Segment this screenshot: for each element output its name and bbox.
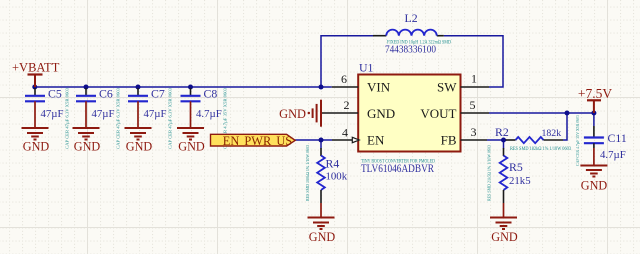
svg-text:R4: R4: [326, 157, 340, 171]
svg-text:C7: C7: [151, 87, 165, 101]
capacitor C11: [575, 114, 627, 166]
junction C6 on VIN net: [84, 85, 89, 90]
svg-text:RES SMD 21k5Ω 1% 1/10W 0603: RES SMD 21k5Ω 1% 1/10W 0603: [487, 144, 492, 201]
svg-text:CAP CER 47µF 6.3V X5R 0603: CAP CER 47µF 6.3V X5R 0603: [116, 87, 121, 149]
svg-text:4.7µF: 4.7µF: [600, 149, 626, 161]
junction FB net / R5: [501, 138, 506, 143]
svg-text:R2: R2: [495, 125, 509, 139]
svg-text:GND: GND: [178, 140, 205, 154]
U1 pin 1 SW: [461, 86, 490, 88]
resistor R4: [305, 144, 348, 203]
U1 pin 4 EN: [332, 139, 358, 141]
wire C11 drop: [593, 113, 595, 126]
svg-text:GND: GND: [367, 106, 395, 121]
svg-text:6: 6: [341, 72, 347, 86]
svg-text:GND: GND: [581, 179, 608, 193]
ground GND (U1 pin 2, bar style): [279, 100, 321, 127]
svg-text:RES SMD 100kΩ 1% 1/10W 0603: RES SMD 100kΩ 1% 1/10W 0603: [305, 144, 310, 201]
svg-text:1: 1: [471, 72, 477, 86]
svg-text:74438336100: 74438336100: [385, 45, 436, 56]
power port +VBATT: [12, 61, 60, 88]
svg-text:VIN: VIN: [367, 80, 391, 95]
wire FB net: [487, 139, 507, 141]
svg-text:RES SMD 182kΩ 1% 1/10W 0603: RES SMD 182kΩ 1% 1/10W 0603: [510, 147, 571, 152]
power port +7.5V: [578, 86, 612, 113]
U1 pin 5 VOUT: [461, 112, 490, 114]
svg-text:SW: SW: [437, 80, 457, 95]
svg-text:GND: GND: [309, 230, 336, 244]
svg-text:4: 4: [342, 125, 348, 139]
svg-text:100k: 100k: [326, 171, 348, 183]
wire R2 to VOUT node: [563, 113, 567, 140]
svg-text:C11: C11: [608, 131, 627, 145]
wire L2 left vertical: [321, 36, 373, 87]
U1 pin 2 GND: [322, 112, 358, 114]
wire EN net: [295, 139, 332, 141]
ground GND (C5): [22, 101, 49, 139]
svg-text:182k: 182k: [542, 128, 562, 139]
wire VOUT net: [489, 112, 594, 114]
capacitor C5: [25, 87, 70, 150]
svg-text:4.7µF: 4.7µF: [196, 108, 222, 120]
svg-text:FB: FB: [441, 133, 457, 148]
svg-text:L2: L2: [405, 11, 418, 25]
svg-text:TLV61046ADBVR: TLV61046ADBVR: [361, 161, 434, 175]
svg-text:GND: GND: [23, 140, 50, 154]
svg-text:C8: C8: [204, 87, 218, 101]
resistor R5: [487, 144, 531, 203]
svg-text:+7.5V: +7.5V: [578, 86, 612, 101]
U1 pin 3 FB: [461, 139, 488, 141]
wire VBATT bus: [35, 86, 332, 88]
junction VOUT net / R2 branch: [565, 111, 570, 116]
svg-text:47µF: 47µF: [144, 108, 167, 120]
U1 pin 6 VIN: [332, 86, 359, 88]
junction EN net / R4: [319, 138, 324, 143]
svg-text:EN: EN: [367, 133, 385, 148]
svg-text:VOUT: VOUT: [420, 106, 456, 121]
svg-text:5: 5: [470, 98, 476, 112]
ground GND (R5): [490, 203, 517, 229]
capacitor C8: [181, 87, 228, 150]
svg-text:+VBATT: +VBATT: [12, 61, 60, 75]
ground GND (C8): [177, 101, 204, 139]
junction L2/VIN pin 6: [319, 85, 324, 90]
capacitor C6: [76, 87, 121, 150]
ground GND (C11): [580, 148, 607, 177]
harness port EN PWR US: [211, 134, 296, 148]
wire L2 right to SW: [444, 36, 503, 87]
junction C8 on VIN net: [188, 85, 193, 90]
svg-text:GND: GND: [126, 140, 153, 154]
svg-text:47µF: 47µF: [41, 108, 64, 120]
ground GND (C7): [125, 101, 152, 139]
svg-text:CAP CER 4.7µF 35V X5R 0603: CAP CER 4.7µF 35V X5R 0603: [575, 114, 580, 166]
junction +VBATT/C5 on VIN net: [32, 85, 37, 90]
svg-text:EN PWR US: EN PWR US: [223, 134, 293, 148]
svg-text:U1: U1: [359, 61, 374, 75]
svg-text:47µF: 47µF: [92, 108, 115, 120]
svg-text:C5: C5: [48, 87, 62, 101]
ground GND (R4): [308, 203, 335, 229]
wire R4 drop: [320, 140, 322, 149]
junction VOUT net / +7.5V / C11: [591, 111, 596, 116]
svg-text:21k5: 21k5: [509, 175, 531, 187]
svg-text:GND: GND: [74, 140, 101, 154]
svg-text:3: 3: [471, 125, 477, 139]
svg-text:R5: R5: [509, 160, 523, 174]
capacitor C7: [128, 87, 173, 150]
svg-text:CAP CER 47µF 6.3V X5R 0603: CAP CER 47µF 6.3V X5R 0603: [168, 87, 173, 149]
svg-text:CAP CER 47µF 6.3V X5R 0603: CAP CER 47µF 6.3V X5R 0603: [65, 87, 70, 149]
inductor L2: [373, 11, 451, 56]
wire R5 drop: [503, 140, 505, 149]
junction C7 on VIN net: [136, 85, 141, 90]
svg-text:GND: GND: [279, 107, 306, 121]
ground GND (C6): [73, 101, 100, 139]
svg-text:GND: GND: [491, 230, 518, 244]
resistor R2: [495, 125, 571, 152]
svg-text:2: 2: [344, 98, 350, 112]
IC U1 TLV61046ADBVR body: [358, 75, 460, 152]
svg-text:C6: C6: [99, 87, 113, 101]
